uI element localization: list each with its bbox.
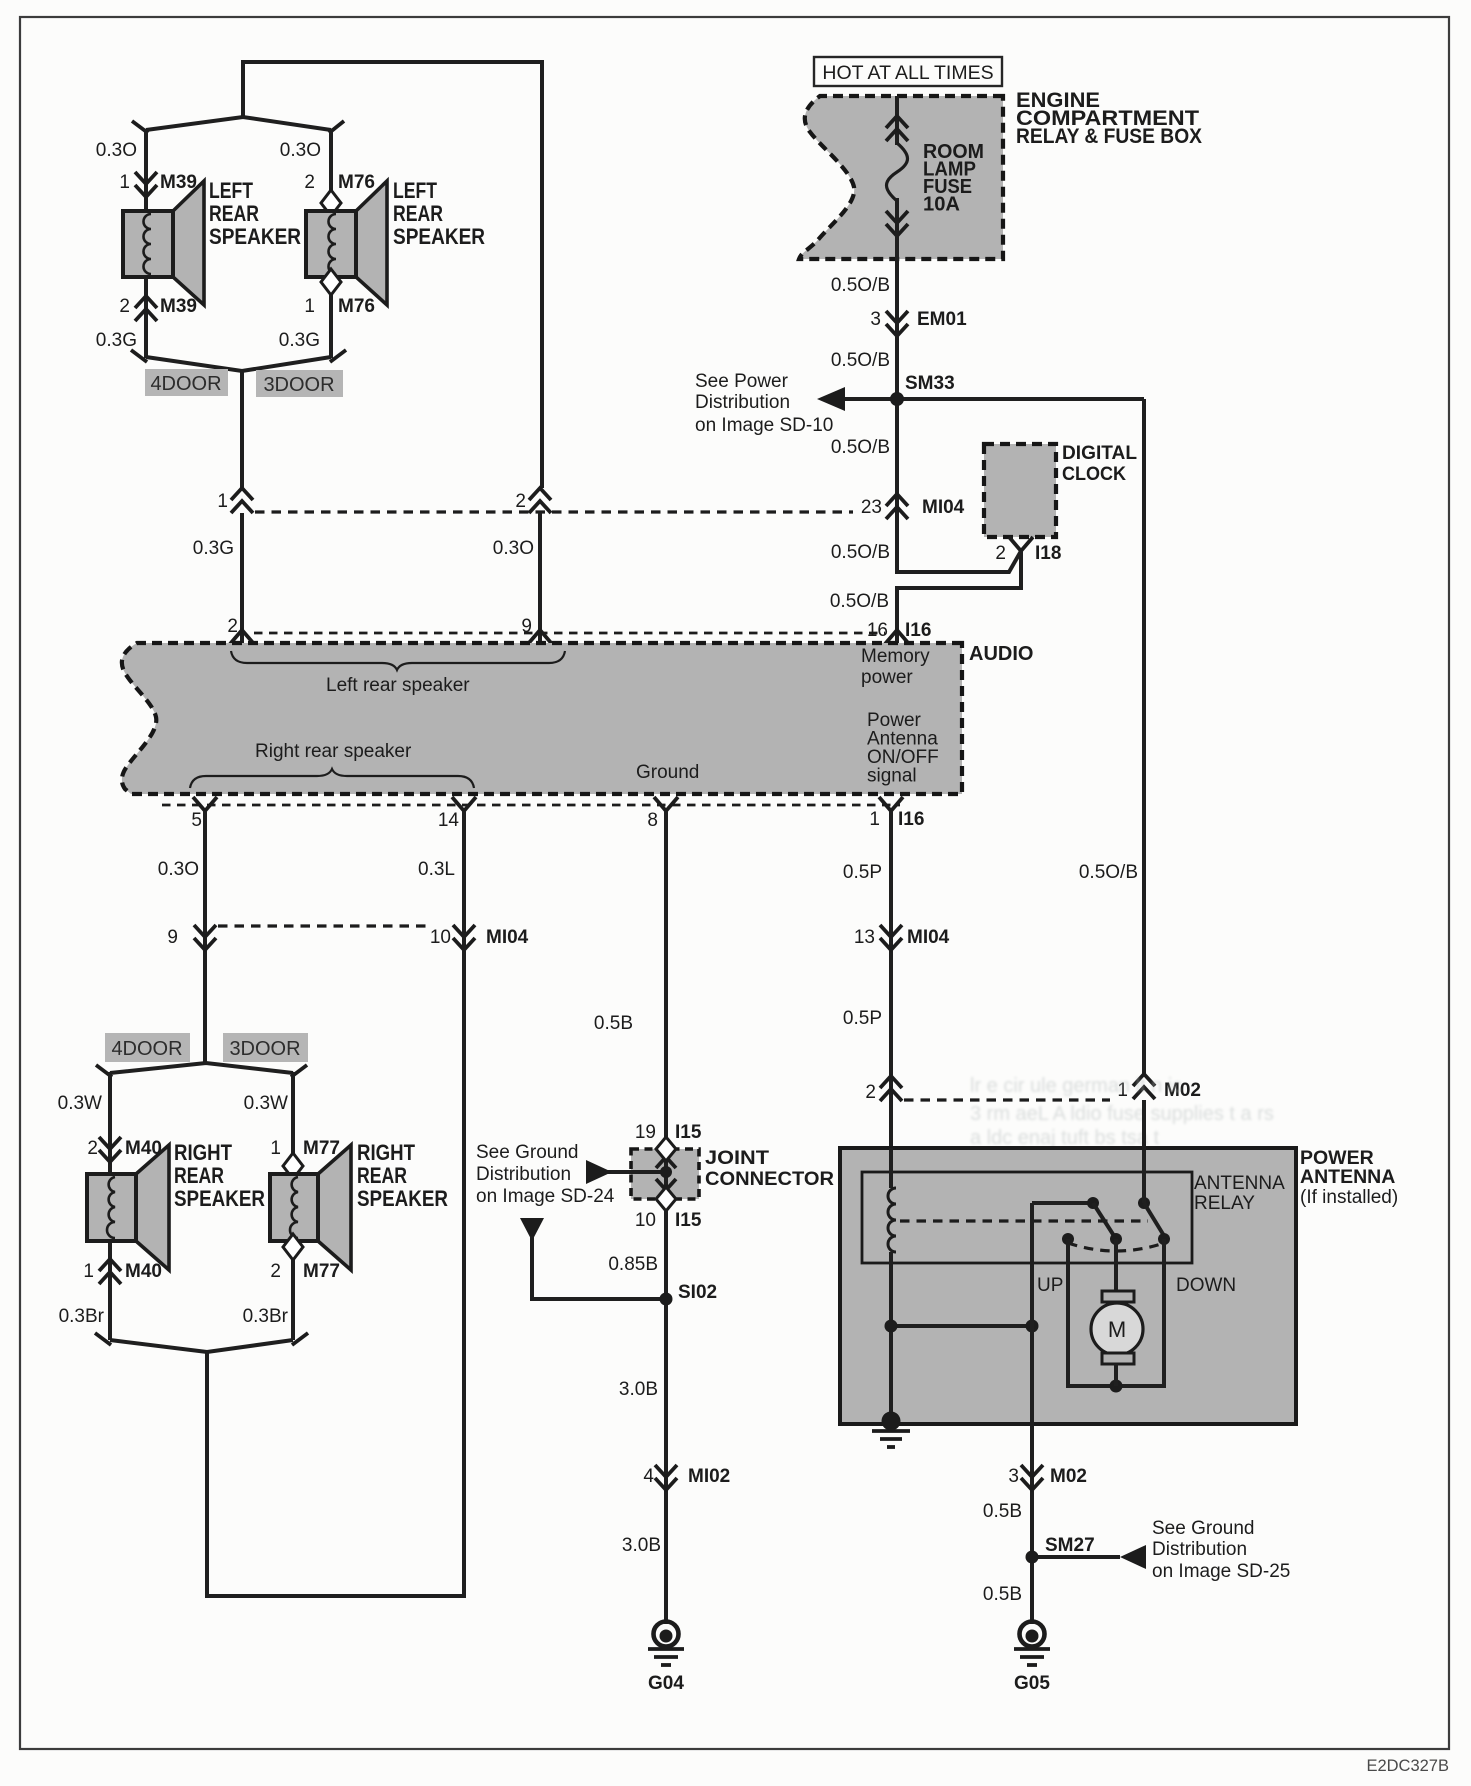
svg-text:REAR: REAR — [209, 201, 259, 226]
svg-text:See Ground: See Ground — [476, 1142, 578, 1163]
svg-text:RIGHT: RIGHT — [174, 1140, 232, 1165]
audio pin 1 I16 — [879, 797, 903, 811]
dashed connector line M02 — [904, 1098, 1110, 1101]
svg-text:SPEAKER: SPEAKER — [357, 1186, 448, 1211]
svg-text:1: 1 — [869, 809, 880, 830]
svg-text:signal: signal — [867, 766, 917, 787]
connector M02 pin 2 — [880, 1076, 902, 1101]
svg-text:M39: M39 — [160, 172, 197, 193]
svg-text:Left rear speaker: Left rear speaker — [326, 675, 470, 696]
speaker M77 coil — [290, 1177, 298, 1238]
svg-text:REAR: REAR — [357, 1163, 407, 1188]
svg-text:LEFT: LEFT — [209, 178, 253, 203]
ground G05 — [1014, 1622, 1050, 1666]
svg-text:10A: 10A — [923, 194, 960, 216]
wire from I18 to audio pin 16 — [897, 551, 1021, 644]
digital clock box — [984, 444, 1056, 537]
connector M40 pin 1 — [99, 1259, 121, 1284]
svg-text:I18: I18 — [1035, 543, 1061, 564]
svg-text:G04: G04 — [648, 1673, 684, 1694]
dashed connector line MI04 top — [255, 510, 853, 513]
svg-text:Distribution: Distribution — [695, 392, 790, 413]
wire break tick right — [291, 1065, 307, 1077]
svg-text:0.3L: 0.3L — [418, 859, 455, 880]
svg-text:ANTENNA: ANTENNA — [1300, 1166, 1395, 1188]
antenna relay inner box — [862, 1172, 1192, 1263]
svg-text:3: 3 — [870, 309, 881, 330]
wire 0.5B from audio pin 8 — [664, 811, 668, 1140]
svg-text:0.5O/B: 0.5O/B — [1079, 862, 1138, 883]
svg-text:Memory: Memory — [861, 646, 930, 667]
connector I15 diamond top — [656, 1137, 676, 1161]
svg-text:Distribution: Distribution — [1152, 1539, 1247, 1560]
svg-text:See Ground: See Ground — [1152, 1518, 1254, 1539]
wire through M39 speaker — [144, 272, 148, 358]
wire: M76 branch 0.3O — [329, 129, 333, 194]
svg-text:MI02: MI02 — [688, 1466, 730, 1487]
speaker M39 cone — [173, 181, 204, 305]
svg-text:9: 9 — [167, 927, 178, 948]
svg-text:1: 1 — [304, 296, 315, 317]
speaker M40 coil — [107, 1177, 115, 1238]
tick — [95, 1333, 111, 1345]
svg-text:3 rm aeL A ldio fuse supplies: 3 rm aeL A ldio fuse supplies t a rs — [970, 1103, 1274, 1125]
svg-text:M77: M77 — [303, 1261, 340, 1282]
svg-text:0.3O: 0.3O — [493, 538, 534, 559]
wire break tick left — [96, 1065, 112, 1077]
svg-text:0.3Br: 0.3Br — [59, 1306, 105, 1327]
speaker M76 cone — [356, 181, 387, 305]
svg-text:I16: I16 — [905, 620, 931, 641]
svg-text:REAR: REAR — [393, 201, 443, 226]
svg-text:Distribution: Distribution — [476, 1164, 571, 1185]
relay actuator dashed link — [900, 1219, 1148, 1222]
svg-text:0.3G: 0.3G — [96, 330, 137, 351]
audio pin 8 — [654, 797, 678, 811]
connector EM01 pin 3 — [886, 311, 908, 336]
svg-text:SI02: SI02 — [678, 1282, 717, 1303]
svg-text:on Image SD-25: on Image SD-25 — [1152, 1561, 1290, 1582]
wire 0.3L from pin 14 down and around to speakers — [207, 811, 464, 1596]
connector MI04 pin 2 — [529, 488, 551, 513]
svg-text:See Power: See Power — [695, 371, 789, 392]
svg-text:0.5P: 0.5P — [843, 1008, 882, 1029]
connector MI04 pin 10 — [453, 925, 475, 950]
svg-text:I15: I15 — [675, 1210, 702, 1231]
relay coil — [888, 1148, 896, 1421]
speaker M40 cone — [136, 1145, 169, 1270]
svg-text:Ground: Ground — [636, 762, 699, 783]
svg-text:power: power — [861, 667, 913, 688]
speaker M77 cone — [318, 1145, 351, 1270]
wire break tick — [131, 350, 147, 362]
thin dashed connector line I16 bottom — [162, 804, 900, 807]
svg-text:I15: I15 — [675, 1122, 702, 1143]
wire: M39 branch 0.3O — [144, 129, 148, 216]
splice SM33 with branch line — [817, 387, 1144, 411]
speaker M39 coil — [144, 214, 151, 274]
connector M77 pin 2 — [283, 1234, 303, 1260]
brace: right rear speaker pins — [190, 769, 474, 788]
svg-text:RELAY & FUSE BOX: RELAY & FUSE BOX — [1016, 125, 1202, 148]
svg-text:0.5P: 0.5P — [843, 862, 882, 883]
wire through M76 speaker — [329, 216, 333, 270]
svg-text:SPEAKER: SPEAKER — [393, 224, 485, 249]
svg-text:0.5O/B: 0.5O/B — [831, 275, 890, 296]
HOT AT ALL TIMES box — [814, 57, 1002, 86]
svg-text:23: 23 — [861, 497, 882, 518]
connector M39 pin 1 — [135, 172, 157, 197]
svg-text:4DOOR: 4DOOR — [111, 1038, 182, 1060]
coil ground junction — [891, 1324, 1032, 1328]
svg-text:AUDIO: AUDIO — [969, 643, 1033, 665]
wire: right branch down to M02 — [1142, 399, 1146, 1076]
3DOOR tag — [256, 370, 343, 397]
svg-text:M77: M77 — [303, 1138, 340, 1159]
svg-text:RIGHT: RIGHT — [357, 1140, 415, 1165]
wire: top feed from audio pin 9 up and across to left rear speakers — [243, 62, 542, 488]
svg-text:on Image SD-24: on Image SD-24 — [476, 1186, 615, 1207]
wire 0.3W (M40) — [108, 1072, 112, 1180]
relay contacts and blades — [1032, 1197, 1170, 1245]
svg-text:1: 1 — [217, 491, 228, 512]
down-switch output wire to M02-3 — [1030, 1203, 1034, 1424]
audio pin 5 — [193, 797, 217, 811]
wire 0.3G below M76 — [329, 295, 333, 358]
svg-text:0.5O/B: 0.5O/B — [831, 437, 890, 458]
svg-text:LEFT: LEFT — [393, 178, 437, 203]
splice SI02 — [660, 1293, 673, 1306]
wire through M40 — [108, 1236, 112, 1340]
svg-text:13: 13 — [854, 927, 875, 948]
svg-text:16: 16 — [867, 620, 888, 641]
svg-text:M76: M76 — [338, 172, 375, 193]
UP wire — [1068, 1239, 1164, 1386]
audio pins 2 & 9 chevrons — [230, 630, 254, 644]
svg-text:I16: I16 — [898, 809, 924, 830]
motor M — [1091, 1239, 1143, 1386]
connector M40 pin 2 — [99, 1137, 121, 1162]
svg-text:EM01: EM01 — [917, 309, 967, 330]
POWER ANTENNA box — [840, 1148, 1296, 1424]
wire 0.3W (M77) — [291, 1072, 295, 1155]
fuse ROOM LAMP FUSE 10A — [886, 96, 908, 312]
svg-text:(If installed): (If installed) — [1300, 1187, 1398, 1208]
svg-text:19: 19 — [635, 1122, 656, 1143]
svg-text:2: 2 — [119, 296, 130, 317]
svg-text:0.3W: 0.3W — [58, 1093, 102, 1114]
brace: left rear speaker pins — [231, 651, 565, 670]
svg-text:3.0B: 3.0B — [622, 1535, 661, 1556]
svg-text:SPEAKER: SPEAKER — [209, 224, 301, 249]
svg-text:E2DC327B: E2DC327B — [1366, 1757, 1449, 1775]
svg-text:Right rear speaker: Right rear speaker — [255, 741, 412, 762]
connector M02 pin 1 — [1133, 1074, 1155, 1099]
svg-text:0.5O/B: 0.5O/B — [830, 591, 889, 612]
svg-text:MI04: MI04 — [486, 927, 529, 948]
svg-text:4: 4 — [643, 1466, 654, 1487]
svg-text:M39: M39 — [160, 296, 197, 317]
4DOOR tag — [145, 369, 228, 396]
svg-text:0.3O: 0.3O — [280, 140, 321, 161]
svg-text:0.5B: 0.5B — [983, 1501, 1022, 1522]
svg-text:SM27: SM27 — [1045, 1535, 1095, 1556]
connector M02 pin 3 — [1030, 1424, 1034, 1624]
wire: merged 0.3G down to MI04 — [240, 370, 244, 490]
svg-text:REAR: REAR — [174, 1163, 224, 1188]
svg-text:DIGITAL: DIGITAL — [1062, 442, 1137, 464]
dashed mechanical link between contacts — [1068, 1243, 1164, 1251]
4DOOR tag lower — [105, 1033, 190, 1062]
splice SM27 with arrow — [1026, 1545, 1147, 1569]
svg-text:2: 2 — [270, 1261, 281, 1282]
svg-text:M40: M40 — [125, 1261, 162, 1282]
svg-text:DOWN: DOWN — [1176, 1275, 1236, 1296]
svg-text:MI04: MI04 — [922, 497, 965, 518]
svg-text:0.3G: 0.3G — [193, 538, 234, 559]
svg-text:3DOOR: 3DOOR — [229, 1038, 300, 1060]
svg-text:2: 2 — [515, 491, 526, 512]
antenna ground symbol — [520, 1218, 660, 1299]
ground inside antenna box — [872, 1412, 910, 1448]
thin dashed connector line I16 top — [254, 632, 885, 635]
svg-text:4DOOR: 4DOOR — [150, 373, 221, 395]
svg-text:HOT AT ALL TIMES: HOT AT ALL TIMES — [822, 62, 993, 84]
joint connector box — [631, 1149, 699, 1199]
wire 0.5P from audio pin 1 — [889, 811, 893, 1148]
connector MI04 pin 1 — [231, 488, 253, 513]
wire break tick left — [132, 121, 148, 133]
speaker M39 body — [123, 211, 173, 277]
svg-text:G05: G05 — [1014, 1673, 1050, 1694]
svg-text:M76: M76 — [338, 296, 375, 317]
wire break tick — [330, 350, 346, 362]
wire M02-1 into relay — [1142, 1100, 1146, 1203]
connector MI02 pin 4 — [655, 1465, 677, 1490]
svg-text:0.5O/B: 0.5O/B — [831, 542, 890, 563]
harness merge at bottom — [110, 1340, 293, 1352]
svg-text:2: 2 — [227, 616, 238, 637]
connector I18 pin 2 (Y) — [1009, 537, 1033, 551]
svg-text:0.5O/B: 0.5O/B — [831, 350, 890, 371]
harness fork to M40 / M77 — [110, 1063, 293, 1073]
svg-text:10: 10 — [430, 927, 451, 948]
AUDIO unit box (torn-edge block) — [122, 643, 962, 794]
svg-text:0.5B: 0.5B — [983, 1584, 1022, 1605]
svg-text:0.5B: 0.5B — [594, 1013, 633, 1034]
svg-text:1: 1 — [270, 1138, 281, 1159]
dashed connector line MI04 lower — [218, 924, 426, 927]
svg-text:2: 2 — [865, 1082, 876, 1103]
connector M39 pin 2 — [135, 296, 157, 321]
wire 0.3O to audio pin 9 — [538, 513, 542, 644]
svg-text:JOINT: JOINT — [705, 1147, 769, 1169]
svg-text:0.3O: 0.3O — [96, 140, 137, 161]
wire 0.3O from pin 5 — [203, 811, 207, 1063]
svg-text:0.85B: 0.85B — [608, 1254, 658, 1275]
wire through M77 — [291, 1179, 295, 1236]
connector I15 diamond bottom — [656, 1187, 676, 1211]
svg-text:M02: M02 — [1050, 1466, 1087, 1487]
ground G04 — [648, 1622, 684, 1666]
svg-text:2: 2 — [995, 543, 1006, 564]
svg-text:3.0B: 3.0B — [619, 1379, 658, 1400]
svg-text:UP: UP — [1037, 1275, 1063, 1296]
svg-text:1: 1 — [119, 172, 130, 193]
svg-text:0.3Br: 0.3Br — [243, 1306, 289, 1327]
3DOOR tag lower — [223, 1033, 308, 1062]
svg-text:a ldc enaj tuft bs tsa t: a ldc enaj tuft bs tsa t — [970, 1127, 1159, 1149]
svg-text:CONNECTOR: CONNECTOR — [705, 1168, 834, 1190]
connector I16 pin 16 — [885, 630, 909, 644]
wire 0.85B — [664, 1209, 668, 1624]
svg-text:M: M — [1108, 1317, 1126, 1342]
wire to SM33 — [895, 310, 899, 521]
svg-text:5: 5 — [191, 810, 202, 831]
speaker M77 body — [270, 1174, 318, 1241]
wire 0.3Br (M77) — [291, 1260, 295, 1340]
wire: harness fork to M39 and M76 branches — [146, 117, 331, 130]
svg-text:RELAY: RELAY — [1194, 1193, 1255, 1214]
tick — [292, 1333, 308, 1345]
speaker M40 body — [87, 1174, 136, 1241]
svg-text:CLOCK: CLOCK — [1062, 463, 1126, 485]
svg-text:10: 10 — [635, 1210, 656, 1231]
connector MI04 pin 23 — [886, 494, 908, 519]
connector MI04 pin 13 — [880, 925, 902, 950]
svg-text:3DOOR: 3DOOR — [263, 374, 334, 396]
svg-text:MI04: MI04 — [907, 927, 950, 948]
svg-text:3: 3 — [1008, 1466, 1019, 1487]
svg-text:ANTENNA: ANTENNA — [1194, 1173, 1285, 1194]
svg-text:8: 8 — [647, 810, 658, 831]
audio pin 14 — [452, 797, 476, 811]
connector M76 pin 1 — [321, 269, 341, 295]
wire break tick right — [329, 121, 344, 133]
wire 0.3G to audio pin 2 — [240, 513, 244, 644]
speaker M76 body — [306, 211, 356, 277]
svg-text:2: 2 — [304, 172, 315, 193]
wire to clock split — [897, 519, 1021, 572]
svg-text:0.3W: 0.3W — [244, 1093, 288, 1114]
arrow to joint connector — [586, 1160, 633, 1184]
svg-text:1: 1 — [83, 1261, 94, 1282]
svg-text:0.3G: 0.3G — [279, 330, 320, 351]
joint connector internals — [633, 1155, 676, 1193]
svg-text:0.3O: 0.3O — [158, 859, 199, 880]
svg-text:SPEAKER: SPEAKER — [174, 1186, 265, 1211]
connector MI04 pin 9 — [194, 925, 216, 950]
speaker M76 coil — [329, 214, 336, 274]
engine compartment relay & fuse box (torn-edge block) — [799, 96, 1003, 259]
svg-text:on Image SD-10: on Image SD-10 — [695, 415, 833, 436]
svg-text:2: 2 — [87, 1138, 98, 1159]
harness merge to single wire — [146, 357, 331, 371]
svg-text:14: 14 — [438, 810, 460, 831]
svg-text:SM33: SM33 — [905, 373, 955, 394]
svg-text:lr e cir ule german lt n: lr e cir ule german lt n ic — [970, 1075, 1182, 1097]
